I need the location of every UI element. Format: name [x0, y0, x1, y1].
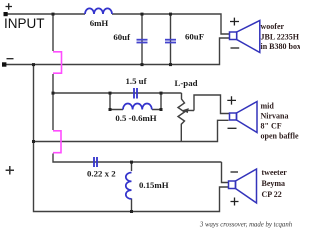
- capacitor C2 60uF: [165, 40, 176, 43]
- tweeter speaker symbol: [229, 169, 257, 203]
- svg-text:Nirvana: Nirvana: [261, 112, 289, 121]
- svg-text:in B380 box: in B380 box: [261, 42, 301, 51]
- potentiometer wiper arrow: [187, 109, 195, 111]
- svg-text:60uF: 60uF: [185, 32, 204, 42]
- label mid plus: [227, 96, 236, 104]
- terminal input minus: [2, 62, 6, 66]
- svg-text:1.5 uf: 1.5 uf: [125, 76, 147, 86]
- node C2 top: [169, 13, 172, 16]
- label tweeter plus: [231, 198, 239, 206]
- wire tweeter plus down: [222, 162, 229, 183]
- node C2 bottom: [169, 63, 172, 66]
- label plus sign input: [6, 3, 13, 10]
- capacitor C1 60uf: [137, 40, 148, 43]
- node mid band tap: [52, 92, 55, 95]
- node minus vertical / mid minus: [32, 140, 35, 143]
- svg-text:L-pad: L-pad: [175, 78, 198, 88]
- capacitor C3 1.5uf: [134, 88, 137, 99]
- node mid LC right bottom: [160, 108, 163, 111]
- node tweeter branch bottom: [130, 210, 133, 213]
- potentiometer L-pad resistor: [178, 93, 185, 142]
- jumper hop 1 (pink) over minus bus: [53, 52, 62, 73]
- terminal input plus: [4, 12, 8, 16]
- node mid LC left top: [109, 92, 112, 95]
- wire plus vertical upper segment: [52, 14, 54, 51]
- svg-text:CP 22: CP 22: [262, 190, 282, 199]
- svg-text:tweeter: tweeter: [262, 168, 288, 177]
- label tweeter minus: [231, 171, 239, 173]
- woofer speaker symbol: [230, 21, 260, 53]
- svg-text:woofer: woofer: [261, 22, 285, 31]
- wire top bus after inductor to woofer: [112, 14, 230, 34]
- inductor L2 0.5-0.6mH: [123, 104, 152, 110]
- wire capacitor branch C1: [141, 14, 143, 65]
- node C1 top: [141, 13, 144, 16]
- svg-text:JBL 2235H: JBL 2235H: [261, 33, 300, 42]
- inductor L3 0.15mH: [126, 173, 132, 199]
- capacitor C4 0.22x2: [94, 157, 97, 167]
- wire plus vertical mid segment: [52, 74, 54, 130]
- svg-text:3 ways crossover, made by tcqa: 3 ways crossover, made by tcqanh: [199, 222, 293, 229]
- mid speaker symbol: [230, 102, 258, 133]
- svg-text:0.15mH: 0.15mH: [139, 180, 169, 190]
- svg-text:6mH: 6mH: [90, 18, 109, 28]
- svg-text:0.22 x 2: 0.22 x 2: [87, 169, 116, 179]
- svg-text:mid: mid: [261, 102, 275, 111]
- node C1 bottom: [141, 63, 144, 66]
- wire mid minus horizontal: [34, 120, 229, 141]
- wire minus bus: [6, 38, 230, 65]
- label INPUT: [4, 16, 45, 31]
- svg-text:8" CF: 8" CF: [261, 122, 282, 131]
- wire capacitor branch C2: [170, 14, 172, 65]
- jumper hop 2 (pink) over mid minus wire: [53, 131, 61, 153]
- label woofer plus: [230, 18, 239, 26]
- node plus bus / vertical: [52, 13, 55, 16]
- wire mid LC right leg: [152, 93, 161, 110]
- label woofer minus: [231, 47, 240, 49]
- svg-text:open baffle: open baffle: [261, 132, 299, 141]
- wire tweeter branch upper: [131, 162, 133, 171]
- node minus bus / left vertical: [32, 63, 35, 66]
- node mid LC right top: [160, 92, 163, 95]
- label minus sign input: [7, 58, 14, 60]
- node tweeter branch top: [130, 161, 133, 164]
- svg-text:0.5 -0.6mH: 0.5 -0.6mH: [115, 113, 156, 123]
- inductor L1 6mH: [85, 8, 112, 14]
- wire top plus bus: [7, 13, 85, 15]
- wire plus vertical lower segment: [53, 154, 222, 163]
- svg-text:60uf: 60uf: [113, 32, 131, 42]
- label mid minus: [228, 127, 237, 129]
- label floating plus left: [6, 166, 14, 175]
- wire mid band top: [53, 92, 182, 94]
- wire mid LC left leg: [110, 93, 123, 110]
- svg-text:Beyma: Beyma: [262, 179, 286, 188]
- wire L-pad wiper to mid speaker plus: [194, 95, 230, 114]
- node mid LC left bottom: [109, 108, 112, 111]
- wire tweeter branch lower: [131, 199, 133, 212]
- wire minus vertical left: [34, 65, 229, 212]
